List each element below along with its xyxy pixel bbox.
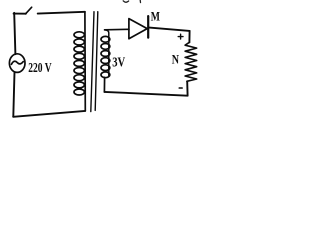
wire: bottom of primary loop <box>13 111 85 117</box>
primary coil loop 8 <box>74 82 84 88</box>
primary coil loop 1 <box>74 32 84 38</box>
transformer core line 1 <box>91 12 94 112</box>
secondary coil loop 1 <box>101 36 110 42</box>
primary coil loop 2 <box>74 39 84 45</box>
secondary coil loop 6 <box>101 72 110 78</box>
primary coil loop 9 <box>74 89 84 95</box>
svg-text:M: M <box>151 8 160 23</box>
stray text fragment (cropped line above, bottom of glyph) <box>123 1 128 2</box>
AC source sine symbol <box>11 61 23 64</box>
primary coil loop 4 <box>74 53 84 59</box>
secondary coil loop 4 <box>101 58 110 64</box>
diode M triangle <box>129 19 147 39</box>
wire: secondary top lead to diode anode <box>105 28 129 31</box>
stray text fragment (cropped descender) <box>139 0 141 3</box>
switch contact dot <box>25 13 27 15</box>
resistor N zigzag <box>185 42 197 81</box>
plus sign <box>178 34 183 39</box>
primary coil loop 3 <box>74 46 84 52</box>
secondary coil loop 2 <box>101 44 110 50</box>
transformer secondary winding L2 lead line <box>105 30 109 76</box>
wire: bottom of secondary loop <box>104 92 187 96</box>
secondary coil loop 5 <box>101 65 110 71</box>
secondary coil loop 3 <box>101 51 110 57</box>
primary coil loop 6 <box>74 68 84 74</box>
transformer primary winding L1 lead line <box>84 12 86 111</box>
minus sign <box>179 87 182 89</box>
wire: top-left, corner to switch contact <box>14 13 26 15</box>
diode M cathode bar <box>147 16 149 37</box>
wire: secondary bottom lead <box>103 77 105 92</box>
wire: diode cathode to top-right corner <box>149 28 189 31</box>
svg-text:220 V: 220 V <box>28 61 51 76</box>
wire: top-right corner down to resistor top <box>188 31 190 42</box>
AC source G circle <box>9 54 25 73</box>
wire: left vertical lower (AC source to bottom) <box>13 72 14 117</box>
svg-text:N: N <box>172 53 179 67</box>
wire: resistor bottom lead <box>186 81 188 95</box>
wire: switch to transformer primary top <box>38 12 85 14</box>
switch S (open blade) <box>26 7 32 14</box>
wire: left vertical upper (to AC source) <box>14 13 15 54</box>
primary coil loop 5 <box>74 60 84 66</box>
svg-text:3V: 3V <box>112 56 125 71</box>
primary coil loop 7 <box>74 75 84 81</box>
transformer core line 2 <box>95 12 98 111</box>
